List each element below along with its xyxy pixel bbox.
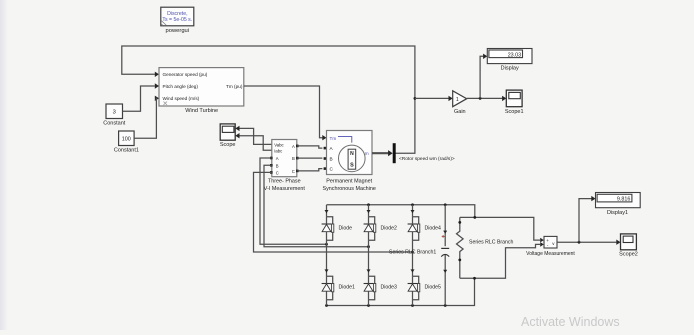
svg-text:S: S — [350, 163, 354, 169]
wire Iabc to Scope input 2 — [235, 133, 271, 150]
Wind Turbine input ports — [155, 83, 159, 101]
Wind Turbine block — [159, 68, 244, 115]
wire Vabc to Scope input 1 — [235, 126, 271, 145]
gain block Gain value 1 — [453, 91, 467, 115]
display block Display1 value 9.816 — [596, 193, 641, 216]
V-I Measurement left ports A B C — [270, 157, 273, 174]
svg-text:Scope: Scope — [220, 142, 236, 148]
wire rectifier negative rail — [325, 278, 474, 307]
svg-text:Three- Phase: Three- Phase — [268, 179, 301, 185]
diode Diode4 — [408, 205, 441, 252]
wire V-I B to PMSM B — [297, 157, 326, 160]
svg-text:Tm (pu): Tm (pu) — [226, 84, 243, 89]
svg-text:Diode2: Diode2 — [381, 225, 398, 231]
wire V-I A to PMSM A — [297, 146, 326, 150]
svg-text:Pitch angle (deg): Pitch angle (deg) — [163, 84, 199, 89]
svg-text:<Rotor speed wm (rad/s)>: <Rotor speed wm (rad/s)> — [399, 156, 455, 162]
svg-text:m: m — [365, 151, 369, 156]
svg-text:Ts = 5e-05 s.: Ts = 5e-05 s. — [162, 17, 192, 23]
display block Display value 23.03 — [487, 49, 532, 72]
svg-text:23.03: 23.03 — [508, 52, 522, 58]
svg-text:Diode: Diode — [339, 225, 353, 231]
wire Gain output junction — [467, 54, 507, 102]
svg-text:Constant: Constant — [103, 121, 125, 127]
constant block Constant value 3 — [103, 104, 125, 127]
svg-text:Generator speed (pu): Generator speed (pu) — [163, 72, 208, 77]
wire V-I C to PMSM C — [297, 167, 326, 171]
Activate Windows watermark — [521, 315, 620, 329]
powergui block — [161, 7, 194, 34]
svg-text:B: B — [330, 157, 333, 162]
wire Wind Turbine Tm to PMSM Tm input — [244, 86, 327, 140]
svg-text:Series RLC Branch: Series RLC Branch — [469, 239, 514, 245]
wire positive node to Voltage Measurement plus — [460, 216, 544, 242]
wire negative node to Voltage Measurement minus — [460, 242, 544, 280]
svg-text:Diode1: Diode1 — [339, 284, 356, 290]
svg-text:Diode4: Diode4 — [425, 225, 442, 231]
svg-text:9.816: 9.816 — [617, 197, 631, 203]
scope block Scope (flipped) — [220, 124, 236, 148]
svg-text:Display: Display — [501, 66, 519, 72]
svg-text:C: C — [292, 169, 295, 174]
svg-text:A: A — [276, 156, 279, 161]
wire phase A to rectifier leg 1 — [260, 158, 328, 246]
svg-text:Vabc: Vabc — [274, 142, 284, 147]
svg-text:Wind speed (m/s): Wind speed (m/s) — [163, 96, 200, 101]
wire phase B to rectifier leg 2 — [264, 165, 370, 248]
svg-text:Scope2: Scope2 — [619, 251, 638, 257]
svg-text:Constant1: Constant1 — [114, 148, 139, 154]
wire Voltage Measurement output — [557, 196, 621, 245]
Permanent Magnet Synchronous Machine block — [323, 131, 376, 192]
svg-text:Series RLC Branch1: Series RLC Branch1 — [389, 249, 436, 255]
svg-text:Tm: Tm — [330, 136, 337, 141]
svg-text:Permanent Magnet: Permanent Magnet — [326, 179, 372, 185]
wire rectifier positive rail — [327, 203, 475, 217]
wire Constant to Pitch angle — [123, 86, 155, 111]
svg-text:C: C — [276, 170, 279, 175]
diode Diode1 — [322, 244, 355, 305]
svg-text:Gain: Gain — [454, 109, 466, 115]
Three-Phase V-I Measurement block — [264, 140, 306, 192]
svg-text:Discrete,: Discrete, — [167, 11, 187, 17]
svg-text:N: N — [350, 151, 354, 157]
bus selector block — [393, 143, 396, 163]
diode Diode2 — [364, 205, 397, 247]
svg-text:B: B — [276, 163, 279, 168]
svg-text:Diode5: Diode5 — [425, 284, 442, 290]
svg-text:B: B — [292, 156, 295, 161]
Voltage Measurement block — [526, 236, 575, 257]
wire PMSM m output (bus) — [372, 150, 393, 156]
svg-text:Scope1: Scope1 — [505, 109, 524, 115]
scope block Scope2 — [619, 234, 638, 257]
svg-text:A: A — [292, 144, 295, 149]
wire Constant1 to Wind speed — [134, 98, 157, 138]
svg-text:powergui: powergui — [166, 28, 190, 34]
capacitor Series RLC Branch1 — [389, 205, 449, 306]
wire rotor-speed feedback — [122, 46, 417, 153]
diode Diode5 — [408, 252, 441, 306]
V-I Measurement right ports A B C — [296, 145, 299, 173]
svg-text:1: 1 — [456, 97, 459, 103]
svg-text:V-I Measurement: V-I Measurement — [264, 186, 306, 192]
svg-text:Diode3: Diode3 — [381, 284, 398, 290]
svg-text:Voltage Measurement: Voltage Measurement — [526, 251, 575, 257]
resistor Series RLC Branch — [457, 217, 514, 278]
svg-text:Iabc: Iabc — [274, 148, 283, 153]
wire phase C to rectifier leg 3 — [254, 172, 414, 253]
diode Diode — [322, 205, 353, 245]
scope block Scope1 — [505, 90, 524, 115]
constant block Constant1 value 100 — [114, 131, 139, 154]
wire to Gain input — [415, 96, 453, 101]
svg-text:100: 100 — [122, 136, 131, 142]
diode Diode3 — [364, 247, 397, 306]
svg-text:3: 3 — [113, 109, 116, 115]
svg-text:Wind Turbine: Wind Turbine — [185, 108, 218, 114]
svg-text:Activate Windows: Activate Windows — [521, 315, 620, 329]
signal label Rotor speed — [399, 156, 455, 162]
svg-text:Synchronous Machine: Synchronous Machine — [323, 186, 376, 192]
svg-text:Display1: Display1 — [607, 210, 628, 216]
